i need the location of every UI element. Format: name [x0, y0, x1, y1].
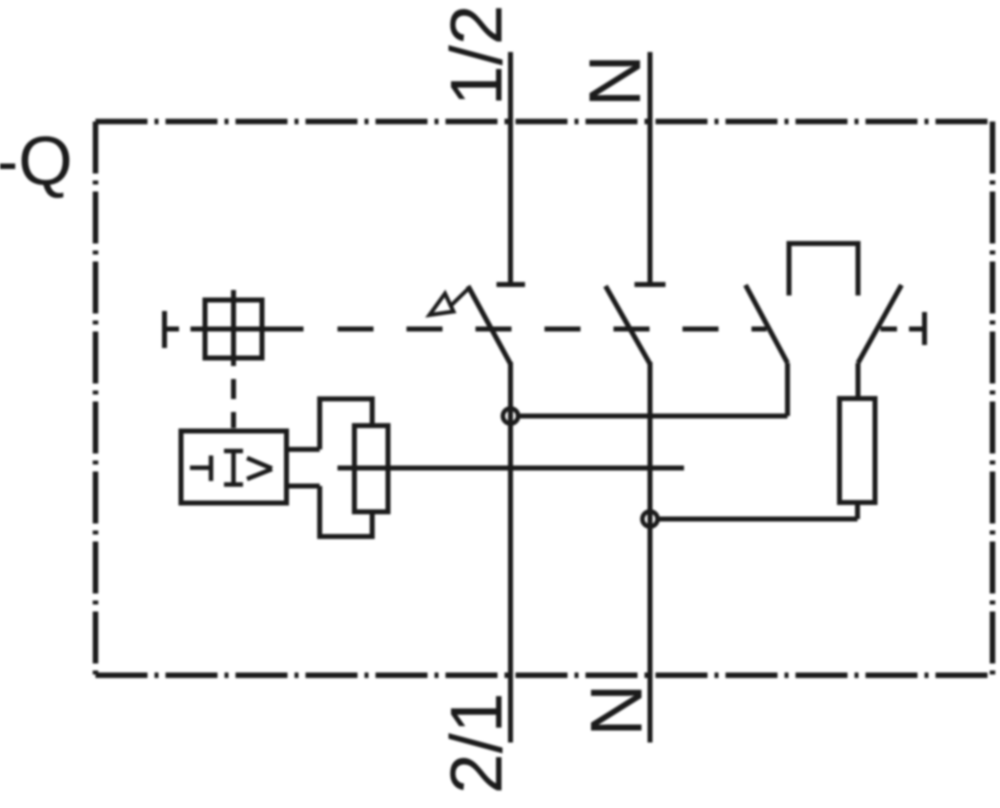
test contact right blade	[858, 285, 902, 363]
mechanical linkage right end tick	[922, 312, 927, 345]
moving contact blade pole 2	[606, 286, 651, 364]
svg-text:1/2: 1/2	[437, 5, 518, 106]
test contact left blade	[746, 285, 788, 363]
wire: right test contact to resistor	[856, 363, 861, 399]
wire: pole 2 incoming terminal N	[648, 52, 653, 285]
trip actuating bar	[338, 466, 685, 471]
test resistor R	[840, 399, 876, 503]
mechanical linkage dashed line	[338, 327, 925, 332]
trip-direction arrow on pole 1 blade	[430, 289, 469, 316]
wire: node 1 to left test contact	[519, 414, 788, 419]
wire: node 2 to resistor	[659, 517, 858, 522]
fixed contact pole 2	[635, 282, 666, 287]
dashed link: transformer to release	[231, 379, 236, 428]
svg-text:N: N	[577, 684, 658, 737]
device outline -Q (dash-dot enclosure border)	[96, 122, 993, 676]
svg-text:-Q: -Q	[0, 122, 73, 200]
release symbol > inside box	[247, 458, 272, 479]
stubs: release box to trip fork	[287, 449, 320, 486]
svg-text:2/1: 2/1	[437, 693, 518, 794]
release symbol I inside box	[224, 451, 243, 485]
wire: pole 1 outgoing to terminal 2/1	[508, 362, 513, 743]
current transformer W1 (toroid square)	[205, 290, 262, 366]
residual current release box	[181, 431, 287, 503]
trip mechanism fork	[320, 399, 373, 537]
trip mechanism slider rectangle	[354, 426, 388, 512]
wire: pole 1 incoming terminal 1/2	[508, 52, 513, 285]
svg-text:N: N	[575, 54, 656, 107]
node: pole 2 tap circle	[642, 511, 657, 526]
wire: pole 2 outgoing to terminal N	[648, 362, 653, 743]
fixed contact pole 1	[497, 282, 526, 287]
wire: resistor bottom stub	[855, 503, 860, 520]
moving contact blade pole 1	[468, 286, 511, 364]
release symbol -| inside box	[190, 456, 211, 482]
test button bracket	[789, 244, 858, 296]
wire: left test contact drop	[785, 363, 790, 416]
node: pole 1 tap circle	[503, 408, 518, 423]
mechanical linkage left end tick	[165, 311, 180, 348]
mechanical linkage solid segment through current transformer	[191, 327, 304, 332]
